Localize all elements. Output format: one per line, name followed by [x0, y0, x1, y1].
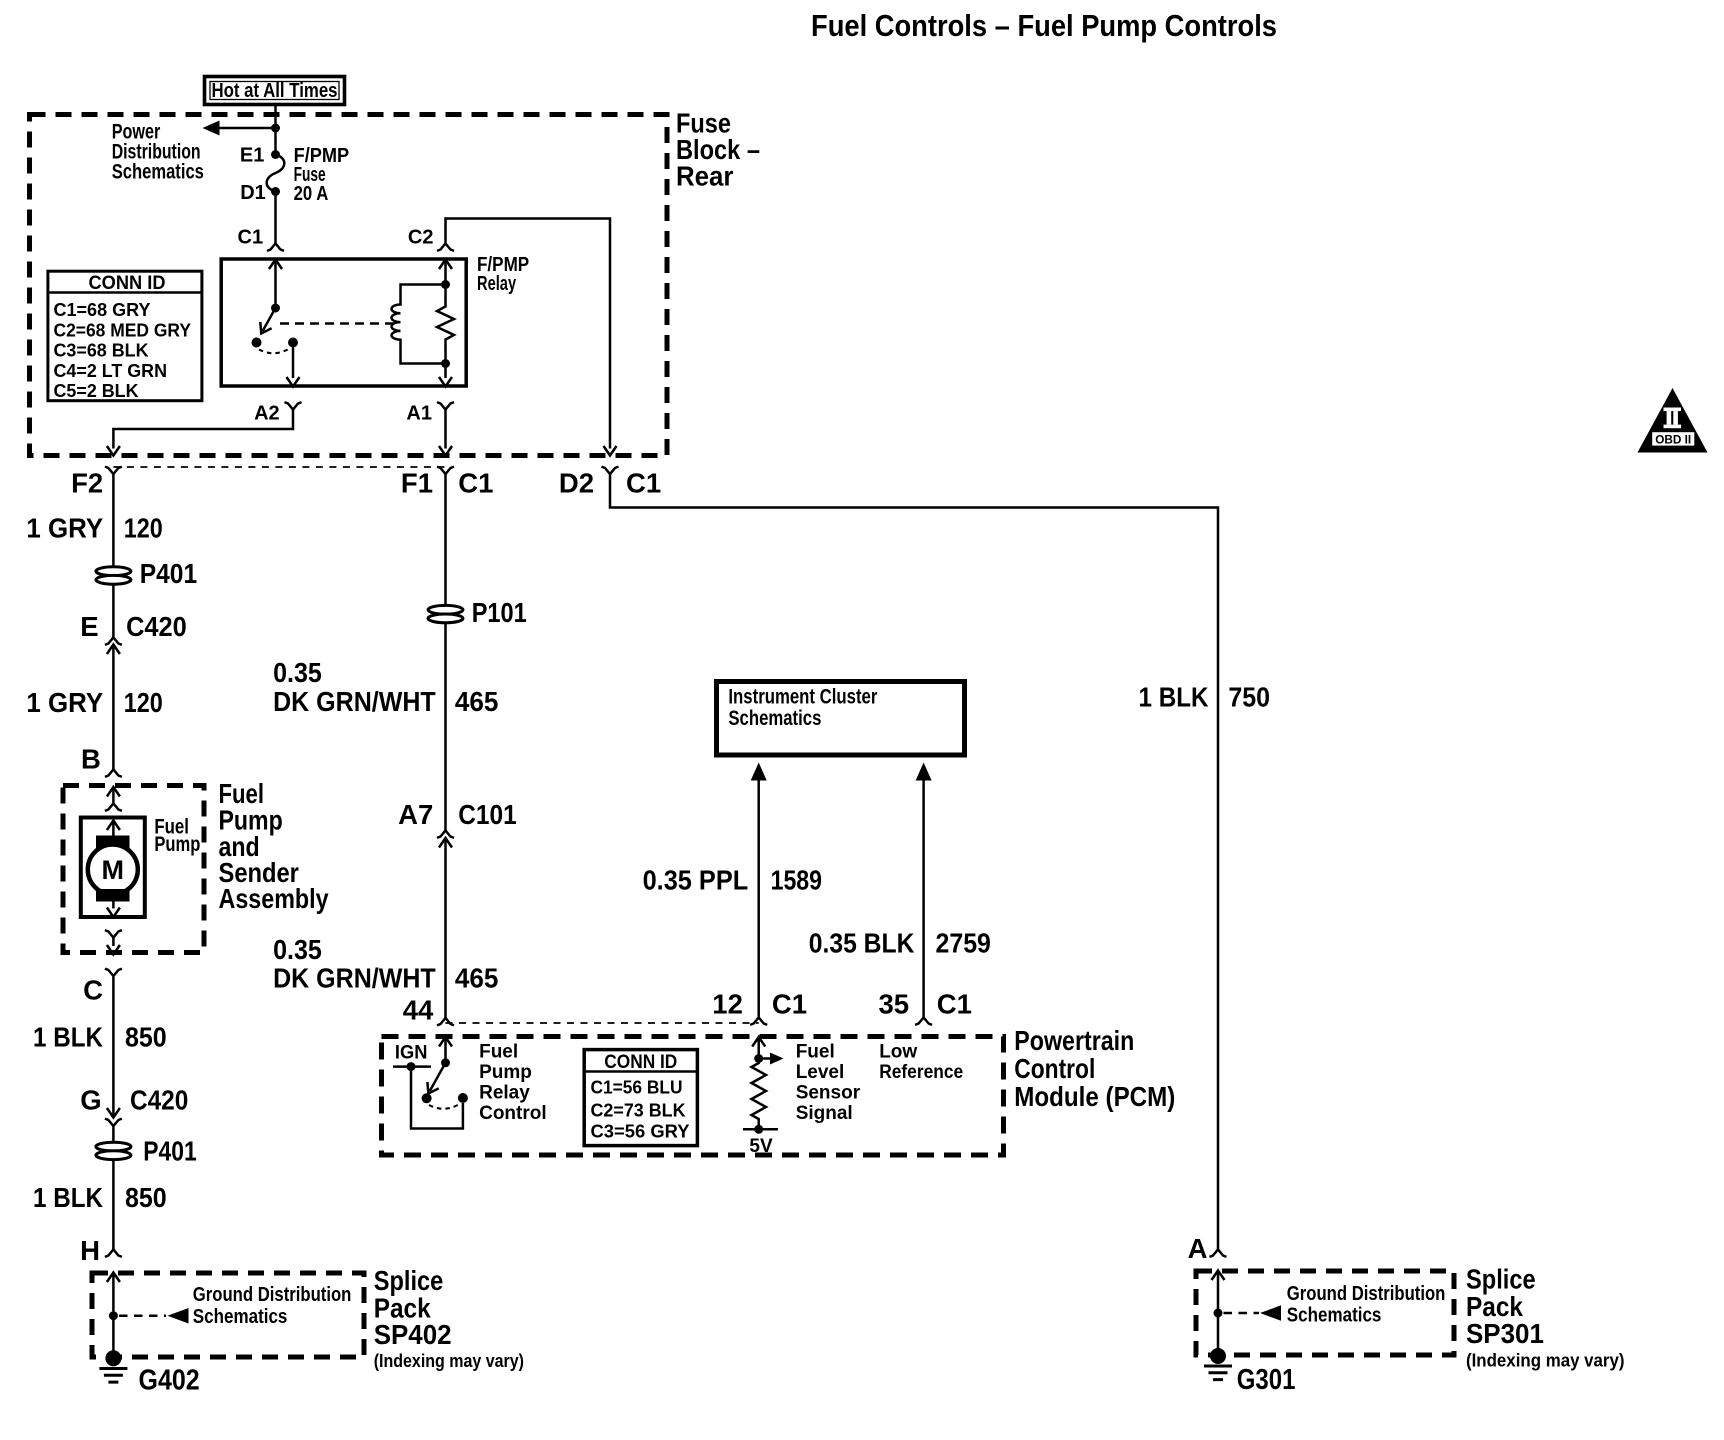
label Low Reference: [879, 1042, 963, 1084]
harness connector dashed line F2 to F1: [113, 466, 445, 468]
wire pin 12 to instrument cluster: [757, 780, 760, 1018]
svg-text:C: C: [83, 975, 103, 1006]
PCM driver switch blade with arrowhead: [423, 1063, 446, 1097]
svg-text:F1: F1: [401, 468, 433, 499]
motor brush block bottom: [96, 889, 130, 902]
svg-text:G402: G402: [139, 1365, 200, 1397]
sensor feed node: [754, 1054, 763, 1063]
relay internal resistor: [437, 285, 454, 364]
connector fork B: [105, 770, 122, 777]
wire D2 to splice pack SP301: [610, 474, 1218, 1250]
svg-text:A1: A1: [406, 403, 432, 425]
svg-text:C1=68 GRY: C1=68 GRY: [54, 299, 152, 320]
IGN node: [407, 1062, 416, 1071]
svg-text:Rear: Rear: [676, 161, 734, 192]
label Ground Distribution Schematics: [193, 1283, 352, 1328]
svg-text:(Indexing may vary): (Indexing may vary): [1466, 1351, 1625, 1371]
5V rail: [743, 1128, 778, 1131]
svg-text:Pump: Pump: [479, 1062, 532, 1083]
connector fork C: [105, 969, 122, 976]
svg-text:5V: 5V: [749, 1136, 773, 1157]
svg-text:Fuel: Fuel: [479, 1042, 518, 1063]
dashed reference link SP402: [119, 1314, 166, 1317]
svg-text:G301: G301: [1237, 1364, 1296, 1396]
svg-text:D2: D2: [559, 468, 594, 499]
svg-text:C2: C2: [408, 227, 434, 249]
svg-text:Control: Control: [479, 1103, 547, 1124]
wire C to C420: [112, 976, 115, 1117]
connector C420 fork up: [105, 1119, 122, 1126]
label Fuel Level Sensor Signal: [796, 1042, 861, 1125]
node E1: [271, 150, 280, 159]
splice node SP301: [1214, 1309, 1223, 1318]
connector fork F2: [105, 467, 122, 474]
svg-text:C3=68 BLK: C3=68 BLK: [54, 340, 150, 361]
svg-text:P101: P101: [472, 597, 527, 628]
svg-text:C1=56 BLU: C1=56 BLU: [591, 1077, 683, 1098]
grommet P401: [96, 567, 131, 584]
svg-text:465: 465: [455, 963, 499, 994]
svg-text:1589: 1589: [771, 865, 822, 896]
wire pin 35 to instrument cluster: [922, 780, 925, 1018]
connector fork at motor top: [105, 804, 122, 811]
svg-text:44: 44: [403, 995, 434, 1026]
PCM switch contact node right: [458, 1093, 468, 1103]
svg-text:120: 120: [124, 687, 163, 718]
label Splice Pack SP301: [1466, 1264, 1625, 1371]
label Fuel Pump: [154, 816, 200, 857]
svg-text:C2=73 BLK: C2=73 BLK: [591, 1100, 687, 1121]
svg-text:Control: Control: [1014, 1053, 1095, 1084]
PCM switch travel dashed arc: [429, 1104, 460, 1109]
assembly exit arrow to C: [107, 945, 120, 955]
node D1: [271, 187, 280, 196]
connector C420 arrow down: [107, 1108, 120, 1118]
PCM conn id box: [584, 1050, 697, 1146]
wire C420 to H: [112, 1126, 115, 1250]
arrow to ground distribution schematics: [1260, 1305, 1281, 1321]
svg-text:(Indexing may vary): (Indexing may vary): [374, 1351, 524, 1371]
relay switch common terminal arrow from C1: [269, 260, 282, 309]
svg-text:0.35: 0.35: [273, 657, 322, 688]
wire H to ground G402: [112, 1273, 115, 1359]
splice pack SP402 dashed enclosure: [92, 1273, 364, 1357]
ground node G402: [105, 1350, 121, 1366]
connector fork A: [1210, 1250, 1227, 1257]
wire C2 to D2 exit arrow: [446, 219, 617, 456]
fuel pump and sender assembly dashed enclosure: [63, 786, 204, 953]
label Fuel Pump and Sender Assembly: [219, 778, 330, 914]
connector C420 fork: [105, 638, 122, 645]
PCM driver switch pivot node: [441, 1058, 450, 1067]
wire A to ground G301: [1217, 1271, 1220, 1357]
svg-text:C1: C1: [626, 468, 661, 499]
svg-text:C5=2 BLK: C5=2 BLK: [54, 380, 140, 401]
connector C101 fork: [437, 831, 454, 838]
svg-text:Schematics: Schematics: [1287, 1304, 1382, 1327]
svg-text:Ground Distribution: Ground Distribution: [1287, 1282, 1446, 1305]
svg-text:Splice: Splice: [374, 1265, 444, 1296]
svg-text:Assembly: Assembly: [219, 883, 330, 914]
svg-text:CONN ID: CONN ID: [89, 273, 166, 294]
grommet P101: [428, 605, 463, 622]
connector fork pin 44: [437, 1018, 454, 1025]
svg-text:C420: C420: [130, 1085, 188, 1116]
connector fork C2: [437, 244, 454, 251]
fuel pump motor box: [81, 818, 145, 918]
svg-text:C101: C101: [458, 799, 516, 830]
svg-text:A: A: [1188, 1233, 1208, 1264]
svg-text:DK GRN/WHT: DK GRN/WHT: [273, 686, 436, 717]
OBD II emblem: [1638, 388, 1708, 453]
svg-text:A7: A7: [398, 799, 433, 830]
PCM pin 12 terminal arrow: [752, 1037, 765, 1059]
sensor signal arm with arrow: [759, 1053, 784, 1065]
relay switch travel dashed arc: [259, 349, 290, 354]
svg-text:F2: F2: [71, 468, 103, 499]
arrow into instrument cluster left: [751, 763, 767, 781]
svg-text:35: 35: [879, 989, 910, 1020]
svg-text:Fuel Controls – Fuel Pump Cont: Fuel Controls – Fuel Pump Controls: [811, 8, 1277, 43]
label Instrument Cluster Schematics: [728, 686, 877, 730]
svg-text:C3=56 GRY: C3=56 GRY: [591, 1121, 691, 1142]
relay switch blade with arrowhead: [256, 308, 276, 337]
svg-text:C420: C420: [126, 611, 187, 642]
power source box Hot at All Times: [205, 77, 345, 105]
label Power Distribution Schematics: [112, 121, 204, 184]
svg-text:C1: C1: [238, 227, 264, 249]
relay switch contact node left: [252, 338, 262, 348]
svg-text:1 BLK: 1 BLK: [33, 1182, 103, 1213]
PCM switch contact node left: [422, 1093, 432, 1103]
svg-text:850: 850: [125, 1182, 167, 1213]
arrow to power distribution schematics: [203, 121, 220, 136]
connector fork D2: [602, 467, 619, 474]
connector fork pin 35: [915, 1018, 932, 1025]
connector C420 arrow: [107, 645, 120, 655]
relay coil winding: [392, 285, 446, 364]
svg-text:Relay: Relay: [477, 273, 517, 295]
connector fork A1: [437, 402, 454, 409]
relay K1 box F/PMP Relay: [221, 259, 466, 386]
IGN feed stub: [393, 1065, 431, 1068]
ground symbol G402: [99, 1369, 127, 1383]
connector fork H: [105, 1250, 122, 1257]
svg-text:Powertrain: Powertrain: [1014, 1025, 1134, 1056]
fuse F/PMP 20 A: [267, 155, 285, 192]
arrow to ground distribution schematics: [168, 1308, 189, 1324]
label Powertrain Control Module PCM: [1014, 1025, 1175, 1112]
svg-text:P401: P401: [143, 1136, 196, 1167]
wire A1 to F1 exit arrow: [439, 410, 452, 456]
fuse block rear dashed enclosure: [30, 115, 668, 456]
svg-text:Sensor: Sensor: [796, 1083, 861, 1104]
5V rail node: [754, 1125, 763, 1134]
svg-text:0.35: 0.35: [273, 934, 322, 965]
svg-text:Schematics: Schematics: [112, 160, 204, 183]
label F/PMP Relay: [477, 254, 529, 295]
svg-text:1 GRY: 1 GRY: [26, 687, 103, 718]
svg-text:1 BLK: 1 BLK: [33, 1022, 103, 1053]
grommet P401 lower: [96, 1142, 131, 1159]
svg-text:Splice: Splice: [1466, 1264, 1536, 1295]
PCM dashed enclosure: [382, 1037, 1004, 1156]
svg-text:1 GRY: 1 GRY: [26, 513, 103, 544]
connector fork F1: [437, 467, 454, 474]
svg-text:0.35 BLK: 0.35 BLK: [809, 928, 915, 959]
svg-text:0.35 PPL: 0.35 PPL: [643, 865, 749, 896]
relay switch pivot node: [271, 304, 280, 313]
svg-text:Level: Level: [796, 1062, 845, 1083]
svg-text:Schematics: Schematics: [193, 1305, 288, 1328]
ground node G301: [1210, 1348, 1226, 1364]
svg-text:20 A: 20 A: [294, 183, 329, 205]
wire C420 to fuel pump B: [112, 645, 115, 770]
connector fork pin 12: [750, 1018, 767, 1025]
instrument cluster box: [717, 682, 965, 756]
svg-text:Pump: Pump: [154, 833, 200, 856]
label Ground Distribution Schematics: [1287, 1282, 1446, 1327]
terminal arrow into SP301: [1212, 1271, 1225, 1281]
svg-text:G: G: [80, 1085, 101, 1116]
motor M1 fuel pump: [88, 845, 138, 895]
wire relay coil to pin A1 arrow: [439, 364, 452, 387]
ground symbol G301: [1204, 1366, 1232, 1380]
svg-text:Instrument Cluster: Instrument Cluster: [728, 686, 877, 709]
wire relay switch to pin A2 arrow: [287, 343, 300, 387]
svg-text:Fuel: Fuel: [796, 1042, 835, 1063]
wire IGN to switch contact: [411, 1067, 463, 1129]
wire A2 to F2 exit arrow: [107, 410, 293, 456]
svg-text:Hot at All Times: Hot at All Times: [212, 80, 338, 102]
svg-text:2759: 2759: [936, 928, 991, 959]
connector C101 arrow: [439, 838, 452, 848]
svg-text:E1: E1: [240, 145, 264, 167]
dashed reference link SP301: [1224, 1312, 1260, 1315]
wire branch to power distribution: [219, 127, 276, 130]
svg-text:IGN: IGN: [395, 1043, 428, 1064]
relay coil bottom node: [441, 359, 450, 368]
svg-text:120: 120: [124, 513, 163, 544]
svg-text:Schematics: Schematics: [728, 707, 821, 730]
splice pack SP301 dashed enclosure: [1196, 1271, 1454, 1355]
PCM pin 44 terminal arrow: [439, 1037, 452, 1063]
terminal arrow B inside assembly: [107, 787, 120, 804]
svg-text:H: H: [80, 1235, 100, 1266]
connector fork C1: [267, 244, 284, 251]
wire hot feed from Hot at All Times to fuse E1: [274, 106, 277, 155]
svg-text:C2=68 MED GRY: C2=68 MED GRY: [54, 319, 192, 340]
motor brush block top: [96, 836, 130, 849]
conn id box fuse block: [48, 271, 202, 401]
svg-text:SP301: SP301: [1466, 1318, 1544, 1349]
svg-text:CONN ID: CONN ID: [604, 1052, 677, 1073]
svg-text:OBD II: OBD II: [1655, 433, 1691, 447]
svg-text:SP402: SP402: [374, 1319, 452, 1350]
connector fork A2: [285, 402, 302, 409]
wire C101 to PCM pin 44: [444, 838, 447, 1018]
relay actuation dashed link: [280, 322, 396, 325]
svg-text:C1: C1: [772, 989, 807, 1020]
junction node on hot feed: [271, 124, 280, 133]
relay coil top node: [441, 280, 450, 289]
svg-text:12: 12: [712, 989, 743, 1020]
label Fuel Pump Relay Control: [479, 1042, 547, 1125]
svg-text:E: E: [80, 611, 98, 642]
svg-text:A2: A2: [254, 403, 280, 425]
svg-text:465: 465: [455, 686, 499, 717]
svg-text:Ground Distribution: Ground Distribution: [193, 1283, 352, 1306]
terminal arrow into SP402: [107, 1273, 120, 1283]
svg-text:Reference: Reference: [879, 1062, 963, 1083]
label Splice Pack SP402: [374, 1265, 524, 1371]
splice node SP402: [109, 1311, 118, 1320]
svg-text:750: 750: [1228, 682, 1270, 713]
svg-text:Relay: Relay: [479, 1083, 530, 1104]
svg-text:P401: P401: [140, 558, 197, 589]
svg-text:850: 850: [125, 1022, 167, 1053]
svg-text:C1: C1: [458, 468, 493, 499]
label Fuse Block Rear: [676, 108, 760, 192]
wire D1 to relay pin C1: [274, 192, 277, 244]
svg-text:B: B: [81, 744, 101, 775]
wire label 0.35 DK GRN/WHT: [273, 657, 436, 717]
harness connector dashed line 44 to 12: [446, 1022, 759, 1024]
svg-text:1 BLK: 1 BLK: [1139, 682, 1209, 713]
connector fork below motor: [105, 930, 122, 946]
label F/PMP Fuse 20 A: [294, 145, 350, 205]
svg-text:DK GRN/WHT: DK GRN/WHT: [273, 963, 436, 994]
wire F1 to C101: [444, 474, 447, 831]
fuel level sensor resistor: [752, 1059, 767, 1130]
wire F2 to C420: [112, 474, 115, 638]
relay switch contact node right: [288, 338, 298, 348]
svg-text:Signal: Signal: [796, 1103, 853, 1124]
arrow into instrument cluster right: [916, 763, 932, 781]
svg-text:Module (PCM): Module (PCM): [1014, 1081, 1175, 1112]
relay coil terminal arrow from C2: [439, 260, 452, 285]
motor terminal arrow top: [107, 821, 120, 837]
motor terminal arrow bottom: [107, 902, 120, 918]
svg-text:C4=2 LT GRN: C4=2 LT GRN: [54, 360, 168, 381]
svg-text:C1: C1: [937, 989, 972, 1020]
wire label 0.35 DK GRN/WHT: [273, 934, 436, 994]
svg-text:M: M: [102, 855, 125, 885]
svg-text:Low: Low: [879, 1042, 917, 1063]
svg-text:D1: D1: [240, 182, 266, 204]
